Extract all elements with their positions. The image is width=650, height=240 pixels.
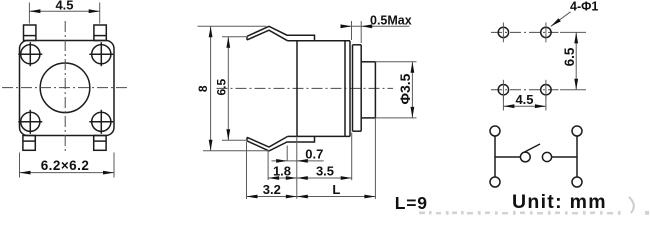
terminal pin 2 (top-right) — [572, 126, 582, 136]
hole bottom-left — [498, 80, 508, 100]
wire right column — [576, 136, 578, 177]
pin tab top-left — [24, 25, 36, 41]
horizontal centerline of side view — [217, 87, 394, 89]
dimension 0.7 (terminal offset) — [272, 146, 324, 163]
switch body (top view, rounded square) — [20, 41, 115, 136]
stem collar ring — [353, 45, 362, 131]
svg-text:4.5: 4.5 — [515, 92, 533, 107]
corner contact circle bottom-left with crosshair — [18, 110, 42, 134]
dimension phi 3.5 (stem diameter) — [375, 62, 416, 118]
dimension 4.5 (pin spacing, top) — [29, 0, 99, 24]
svg-text:3.2: 3.2 — [263, 182, 281, 197]
terminal pin 4 (bottom-right) — [572, 177, 582, 187]
dimension 6.5 (hole row spacing) — [560, 32, 586, 89]
dimension 8 (overall width across flanges) — [196, 26, 269, 151]
top bent flange (metal cover tab) — [247, 26, 315, 41]
dimension 0.5Max (collar thickness) — [341, 13, 412, 43]
svg-text:0.5Max: 0.5Max — [370, 13, 412, 27]
hole row centerline top — [491, 31, 559, 33]
svg-text:L=9: L=9 — [395, 193, 428, 213]
hole bottom-right — [541, 80, 551, 100]
svg-text:0.7: 0.7 — [305, 147, 323, 162]
dimension 6.2x6.2 (body size, bottom) — [20, 153, 115, 178]
watermark remnants along bottom edge — [419, 197, 649, 215]
corner contact circle bottom-right with crosshair — [89, 110, 113, 134]
pin tab top-right — [94, 25, 106, 41]
terminal pin 3 (bottom-left) — [490, 177, 500, 187]
corner contact circle top-left with crosshair — [18, 42, 42, 66]
svg-text:Φ3.5: Φ3.5 — [397, 73, 413, 104]
svg-text:6.5: 6.5 — [562, 47, 577, 66]
vertical centerline of top view — [64, 21, 66, 153]
central button circle — [40, 63, 90, 113]
hole row centerline bottom — [491, 89, 559, 91]
pin tab bottom-left — [23, 136, 35, 151]
svg-text:8: 8 — [196, 85, 210, 92]
svg-text:1.8: 1.8 — [273, 163, 291, 178]
terminal pin 1 (top-left) — [490, 126, 500, 136]
dimension row 1.8 and 3.5 — [268, 133, 352, 181]
svg-text:4.5: 4.5 — [55, 0, 73, 12]
svg-text:L: L — [332, 182, 340, 197]
hole top-right — [541, 23, 551, 43]
switch lever — [524, 144, 540, 153]
svg-text:4-Φ1: 4-Φ1 — [570, 0, 598, 13]
switch body (side view) — [288, 41, 350, 137]
wire right stub — [552, 156, 577, 158]
push button stem (phi 3.5) — [361, 62, 375, 118]
dimension 4.5 (hole column spacing) — [503, 92, 546, 110]
svg-text:6.2×6.2: 6.2×6.2 — [41, 158, 90, 173]
corner contact circle top-right with crosshair — [89, 42, 113, 66]
bottom bent flange (metal cover tab) — [247, 136, 315, 151]
horizontal centerline of top view — [2, 87, 130, 89]
label 4-phi1 with leader arrow — [551, 0, 599, 26]
dimension 6.5 (cover width) — [214, 37, 248, 140]
svg-text:6.5: 6.5 — [214, 79, 228, 96]
svg-text:Unit: mm: Unit: mm — [512, 191, 607, 213]
contact node right — [542, 152, 551, 161]
long extension line from body center edge — [296, 136, 298, 198]
contact node left — [520, 152, 530, 162]
wire left stub — [495, 156, 520, 158]
pin tab bottom-right — [94, 136, 106, 151]
hole top-left — [498, 23, 508, 43]
svg-text:3.5: 3.5 — [316, 163, 334, 178]
wire left column — [494, 136, 496, 177]
dimension row 3.2 and L — [247, 118, 376, 199]
